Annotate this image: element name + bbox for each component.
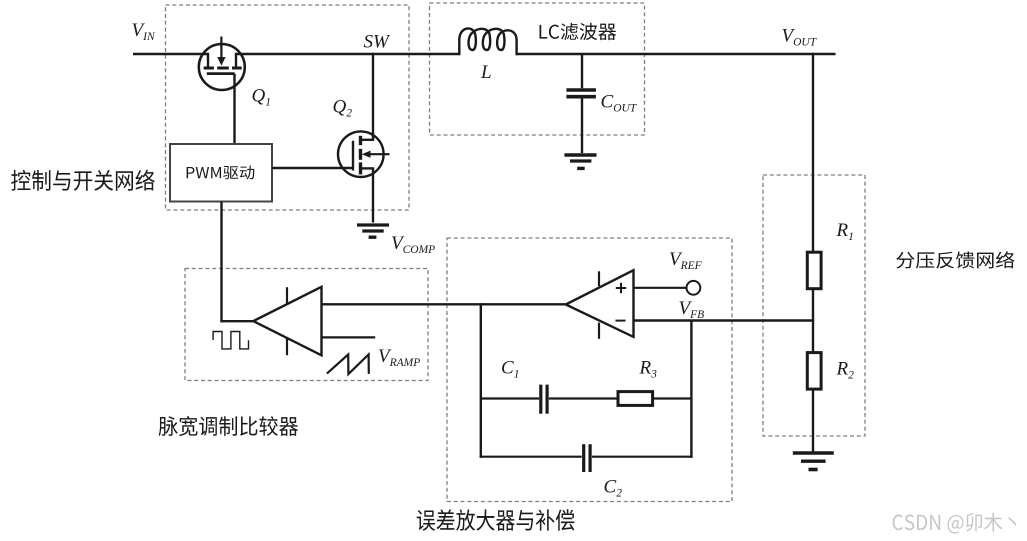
transistor Q2 (NMOS) [338,131,390,177]
op-amp U2 error amplifier [566,270,634,339]
svg-text:Q1: Q1 [252,86,271,109]
svg-text:R1: R1 [836,220,854,243]
sawtooth ramp symbol [327,355,369,375]
wire R2 to ground [812,389,814,453]
resistor R3 [618,392,653,406]
wire C1 to R3 [549,397,618,399]
wire VOUT down to R1 [812,53,814,253]
ground under Q2 [357,225,389,237]
resistor R1 [807,252,821,289]
square wave symbol [213,332,248,349]
wire VFB: error amp - input to divider [634,319,815,321]
svg-text:COUT: COUT [601,92,638,115]
svg-text:SW: SW [364,32,392,53]
wire VOUT node to COUT [581,54,583,88]
wire compensation left branch [480,303,482,458]
wire error amp + input to VREF terminal [634,287,687,289]
label control and switch network (CJK) [11,170,154,191]
label feedback divider network (CJK) [896,251,1014,268]
svg-text:VFB: VFB [679,298,705,321]
wire bottom branch left [480,456,582,458]
label error amplifier and compensation (CJK) [417,509,575,530]
ground under R2 [793,453,834,470]
inductor L [459,28,516,55]
svg-text:VIN: VIN [132,20,156,43]
svg-text:Q2: Q2 [333,97,353,120]
wire PWM driver to Q2 gate [272,167,353,169]
svg-text:VRAMP: VRAMP [378,346,420,369]
dashed box: feedback divider region [763,175,865,436]
transistor Q1 (PMOS) [199,37,245,91]
wire PWM driver to comparator output [220,202,222,323]
ground under COUT [564,155,596,168]
wire middle branch left [481,397,539,399]
wire comparator output [220,320,253,322]
wire COUT to ground [581,99,583,154]
svg-text:L: L [480,62,492,83]
svg-text:C1: C1 [501,358,519,381]
capacitor C2 [584,444,590,472]
svg-text:VOUT: VOUT [782,25,818,48]
svg-text:VCOMP: VCOMP [391,233,435,256]
wire compensation right branch [690,321,692,458]
wire C2 to right branch [592,456,693,458]
resistor R2 [807,353,821,390]
wire SW node to Q2 drain [372,53,374,140]
PWM driver block [170,144,272,202]
dashed box: error amplifier and compensation region [447,238,732,502]
wire R3 to right branch [653,397,692,399]
capacitor COUT [566,90,596,97]
dashed box: PWM comparator region [185,269,428,381]
wire comparator - input stub [322,336,376,338]
svg-text:C2: C2 [604,477,623,500]
dashed box: control and switch network region [166,5,410,210]
comparator U1 (PWM comparator) [253,287,321,356]
wire R1 to R2 [812,289,814,354]
wire error amp output to comparator input [322,303,566,305]
dashed box: LC filter region [430,3,645,135]
label PWM drive (CJK) [187,166,255,180]
wire VIN to Q1 source [133,53,209,55]
capacitor C1 [541,385,547,414]
svg-text:VREF: VREF [669,249,703,272]
label LC filter (CJK) [539,23,616,40]
svg-text:R2: R2 [836,359,855,382]
label PWM comparator (CJK) [159,416,299,436]
svg-text:R3: R3 [639,358,658,381]
terminal VREF circle [687,281,701,295]
wire inductor to VOUT [517,53,836,55]
wire Q2 source to ground [372,168,374,222]
wire Q1 drain to inductor [236,53,460,55]
watermark CSDN (CJK, gray) [893,513,1017,534]
wire Q1 gate to PWM driver [233,74,235,145]
